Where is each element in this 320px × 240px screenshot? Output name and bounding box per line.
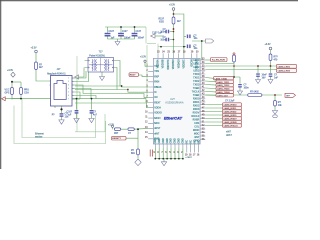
svg-text:4: 4 [68,88,69,90]
svg-text:LAN0_TXEN: LAN0_TXEN [217,91,230,94]
svg-text:U2?: U2? [170,97,175,101]
svg-text:J1?: J1? [57,68,62,71]
svg-text:R15?: R15? [159,19,165,21]
svg-text:RXP: RXP [154,75,159,78]
svg-text:nRST: nRST [154,127,161,130]
svg-text:LAN0_TXD2: LAN0_TXD2 [217,84,230,87]
svg-text:NC: NC [198,140,200,144]
svg-text:RD2?: RD2? [130,75,136,77]
svg-text:LAN0_TXD3: LAN0_TXD3 [217,88,230,91]
svg-text:XI: XI [154,91,157,94]
svg-text:GND: GND [167,138,169,143]
svg-text:VDD18C: VDD18C [184,59,186,68]
svg-text:7: 7 [68,99,69,101]
svg-text:OSCIN: OSCIN [191,59,193,67]
svg-text:LAN0_RXD3: LAN0_RXD3 [224,114,237,117]
svg-text:16V: 16V [262,77,267,79]
svg-text:T1?: T1? [99,50,104,53]
svg-text:LAN0_RXD1: LAN0_RXD1 [224,107,237,110]
svg-text:Pulse H1102NL: Pulse H1102NL [89,55,106,57]
svg-text:LAN0_RXCLK: LAN0_RXCLK [224,125,239,128]
svg-text:GND: GND [179,138,181,143]
svg-text:5: 5 [68,92,69,94]
svg-text:Ethernet: Ethernet [35,133,44,136]
svg-text:+3.3V: +3.3V [31,48,38,50]
svg-text:NC: NC [190,140,192,144]
svg-text:100nF: 100nF [138,38,145,40]
svg-text:LAN0_TXD0: LAN0_TXD0 [215,77,228,80]
svg-text:GND: GND [155,138,157,143]
svg-text:GND: GND [183,138,185,143]
svg-text:VDDA: VDDA [154,107,161,110]
svg-text:LAN0_LED2: LAN0_LED2 [278,70,291,73]
svg-text:1uF: 1uF [111,38,116,40]
svg-text:VDDA18: VDDA18 [177,59,180,69]
svg-text:PRU: PRU [24,90,29,92]
svg-text:100n: 100n [160,40,166,42]
svg-text:LAN0_LED1: LAN0_LED1 [278,65,291,68]
svg-text:1: 1 [68,78,69,80]
svg-text:+3.3V: +3.3V [108,124,115,126]
svg-text:10nF: 10nF [262,75,268,77]
svg-text:C12?: C12? [122,31,128,33]
svg-text:XO: XO [154,96,158,99]
svg-text:NC: NC [194,140,196,144]
svg-text:GPS: GPS [5,92,10,94]
svg-text:VCC: VCC [5,90,10,92]
svg-text:TXN: TXN [154,70,159,73]
svg-text:LAN0_RXD2: LAN0_RXD2 [224,111,237,114]
svg-text:R? 0402: R? 0402 [250,92,259,94]
svg-text:ESD: ESD [159,21,164,23]
svg-text:NC: NC [187,140,189,144]
svg-text:OSCOUT: OSCOUT [197,59,199,69]
svg-text:RESET?: RESET? [112,138,121,140]
svg-text:100nF: 100nF [124,38,131,40]
svg-text:1nF: 1nF [274,77,279,79]
svg-text:LAN0_RXDV: LAN0_RXDV [224,118,237,121]
svg-text:VDD33A: VDD33A [157,59,160,68]
svg-text:section: section [35,135,43,138]
svg-text:nTRST: nTRST [186,157,193,159]
svg-text:FB?: FB? [114,133,119,135]
svg-text:EtherCAT: EtherCAT [164,115,183,120]
svg-text:LAN0_RXER: LAN0_RXER [224,121,237,124]
svg-text:VDD33IO: VDD33IO [173,59,175,69]
svg-text:GND: GND [159,138,161,143]
svg-text:3: 3 [68,85,69,87]
svg-text:REXT: REXT [154,101,161,104]
svg-text:6: 6 [68,95,69,97]
svg-text:VDD33TX: VDD33TX [168,59,170,70]
svg-text:LAN0_CLK: LAN0_CLK [217,94,228,97]
svg-text:100n: 100n [244,87,250,89]
svg-text:VDD33B: VDD33B [163,59,165,68]
svg-text:RBIAS: RBIAS [154,86,162,89]
svg-text:C13?: C13? [136,31,142,33]
svg-text:+3.3V: +3.3V [265,44,272,46]
svg-text:MDIO: MDIO [154,117,160,120]
svg-text:+3.3V: +3.3V [140,57,147,59]
svg-text:KSZ8081RNAIA: KSZ8081RNAIA [165,102,183,105]
svg-text:C? 2.2uF: C? 2.2uF [225,101,235,103]
svg-text:C10?: C10? [109,31,115,33]
svg-text:E_LED_RUN: E_LED_RUN [212,60,225,62]
svg-text:RXN: RXN [154,81,159,84]
svg-text:GND: GND [171,138,173,143]
svg-text:MagJack-RJ45-11: MagJack-RJ45-11 [47,73,66,75]
svg-text:GND: GND [163,138,165,143]
svg-text:+3.3V: +3.3V [169,5,176,7]
svg-text:nRST: nRST [226,135,232,137]
svg-text:nINT: nINT [226,131,232,133]
svg-text:LAN0_TXD1: LAN0_TXD1 [217,81,230,84]
svg-text:nINT: nINT [154,132,160,135]
svg-text:C10?: C10? [67,112,73,114]
svg-text:GND: GND [175,138,177,143]
svg-text:CSA: CSA [24,91,29,94]
svg-text:VDDIO: VDDIO [154,112,162,115]
svg-text:R??: R?? [274,57,279,59]
svg-text:+3.3V: +3.3V [7,70,14,72]
svg-text:MDC: MDC [154,122,160,125]
svg-text:LAN0_RXD0: LAN0_RXD0 [224,104,237,107]
svg-text:2: 2 [68,81,69,83]
svg-text:C15? 1uF: C15? 1uF [152,33,163,35]
